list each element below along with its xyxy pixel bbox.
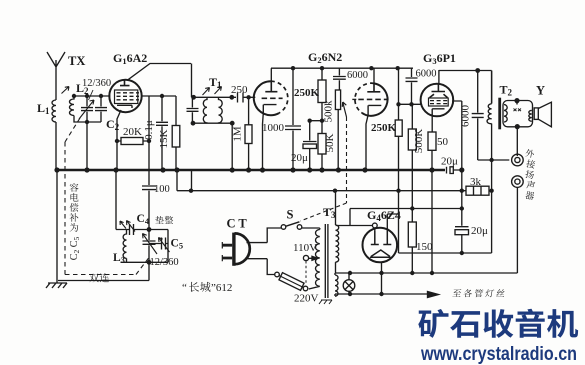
svg-text:500K: 500K	[413, 129, 425, 154]
svg-text:C2: C2	[69, 250, 81, 261]
svg-text:1000: 1000	[262, 122, 285, 134]
svg-text:20μ: 20μ	[291, 152, 308, 164]
svg-text:G16A2: G16A2	[113, 51, 147, 66]
svg-text:L1: L1	[37, 101, 50, 116]
svg-text:50K: 50K	[324, 133, 336, 152]
svg-text:500k: 500k	[323, 100, 335, 123]
svg-text:www.crystalradio.cn: www.crystalradio.cn	[420, 343, 577, 365]
svg-text:C5: C5	[171, 238, 184, 251]
svg-text:G36P1: G36P1	[423, 51, 456, 66]
svg-text:C5: C5	[69, 237, 81, 248]
svg-text:Y: Y	[536, 84, 545, 98]
svg-text:20μ: 20μ	[441, 156, 458, 168]
svg-text:C4: C4	[137, 213, 150, 226]
svg-text:15K: 15K	[158, 129, 170, 148]
svg-text:20μ: 20μ	[471, 225, 488, 237]
svg-text:250K: 250K	[371, 122, 397, 134]
svg-text:G26N2: G26N2	[308, 50, 342, 65]
svg-text:T2: T2	[500, 83, 513, 98]
svg-text:T1: T1	[209, 75, 222, 90]
svg-text:S: S	[287, 208, 294, 222]
svg-text:110V: 110V	[293, 242, 317, 254]
svg-text:100: 100	[154, 184, 170, 195]
svg-text:T3: T3	[323, 205, 336, 220]
svg-text:6000: 6000	[460, 105, 472, 128]
svg-text:C T: C T	[227, 217, 248, 231]
svg-text:250K: 250K	[294, 87, 320, 99]
svg-text:TX: TX	[68, 54, 85, 68]
svg-text:12/360: 12/360	[82, 78, 111, 89]
svg-text:150: 150	[416, 241, 433, 253]
svg-text:1M: 1M	[232, 126, 244, 142]
svg-text:”612: ”612	[211, 282, 232, 294]
svg-text:50: 50	[437, 136, 449, 148]
svg-text:20K: 20K	[123, 126, 142, 138]
svg-text:250: 250	[231, 84, 248, 96]
svg-text:G46Z4: G46Z4	[367, 208, 401, 223]
svg-text:12/360: 12/360	[150, 257, 179, 268]
svg-text:6000: 6000	[347, 70, 368, 81]
svg-text:6000: 6000	[416, 69, 437, 80]
svg-text:0.1μ: 0.1μ	[143, 120, 155, 140]
svg-text:3k: 3k	[470, 176, 482, 188]
svg-text:220V: 220V	[294, 293, 319, 305]
svg-text:“: “	[182, 282, 187, 294]
